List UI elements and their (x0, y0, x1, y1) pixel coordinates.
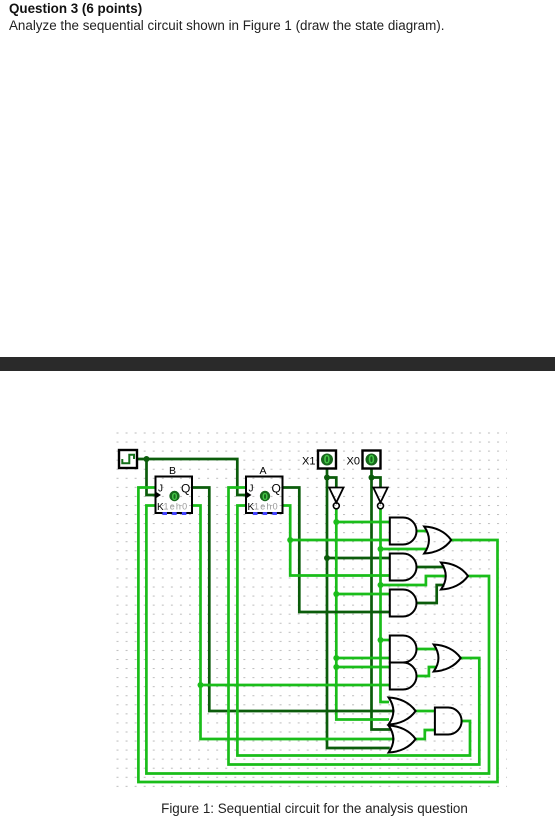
svg-text:J: J (249, 484, 254, 495)
wire AND2 out to OR2 (417, 566, 445, 569)
wire AND1 out to OR1 (417, 530, 428, 533)
svg-text:Q: Q (272, 482, 281, 496)
wire X1 to inverter (327, 478, 336, 489)
svg-text:1eh0: 1eh0 (254, 502, 279, 512)
junction X1 inverter tap (324, 475, 330, 481)
wire OR2 out feedback to B.K (146, 506, 489, 774)
flip-flop A (246, 465, 283, 515)
and-gate G6 (390, 636, 417, 663)
wire AND3 out to OR2 jog (417, 585, 445, 603)
svg-text:X0: X0 (347, 456, 360, 468)
wire X1 vertical (327, 469, 390, 749)
wire X0 vertical (372, 469, 392, 730)
heading: Question 3 (9, 1, 142, 16)
wire B.Q to OR4 (192, 488, 395, 712)
junction NOT-X1 AND5 tap (333, 664, 339, 670)
wire B.Qbar to AND5 (201, 684, 390, 687)
junction NOT-X0 AND4 tap (378, 637, 384, 643)
wire clock branch to B (147, 459, 156, 495)
and-gate G5 (390, 590, 417, 617)
wire NOT-X0 to OR1 (381, 548, 428, 551)
junction NOT-X0 OR2 tap (378, 582, 384, 588)
junction NOT-X1 AND4 tap (333, 655, 339, 661)
wire A.Q to AND3 (283, 488, 390, 613)
and-gate G11 (435, 708, 462, 735)
inverter U1 (NOT X1) (329, 488, 343, 503)
input pin X0 (363, 451, 381, 469)
or-gate G10 (3-input) (389, 726, 416, 753)
or-gate G2 (424, 527, 451, 554)
wire NOT-X0 to OR2 jog (381, 576, 447, 585)
junction NOT-X1 AND3 tap (333, 591, 339, 597)
svg-text:0: 0 (262, 491, 268, 503)
wire AND5 out to OR3 jog (417, 667, 437, 676)
inverter U2 (NOT X0) (373, 488, 387, 503)
and-gate G1 (390, 518, 417, 545)
junction clock (144, 456, 150, 462)
wire OR1 out feedback to B.J (138, 488, 497, 783)
wire NOT-X1 to AND5 (336, 666, 390, 669)
wire NOT-X1 vertical (336, 509, 389, 720)
svg-text:Q: Q (181, 482, 190, 496)
junction NOT-X1 AND1 tap (333, 519, 339, 525)
prompt text (9, 18, 444, 33)
wire A.Qbar to AND1 (290, 539, 390, 542)
svg-text:1eh0: 1eh0 (164, 502, 189, 512)
wire NOT-X1 to AND4 (336, 657, 390, 660)
wire X0 to inverter (372, 478, 381, 489)
wire AND6 out feedback to A.K (237, 506, 470, 756)
wire clock net (137, 459, 246, 495)
junction X1 AND2 tap (324, 555, 330, 561)
or-gate G8 (434, 645, 461, 672)
junction B.Qbar AND5 tap (198, 682, 204, 688)
junction A.Qbar AND1 tap (287, 537, 293, 543)
or-gate G9 (3-input) (389, 698, 416, 725)
wire X1 to AND2 (327, 557, 390, 560)
svg-text:J: J (158, 484, 163, 495)
and-gate G7 (390, 663, 417, 690)
wire NOT-X0 to AND4 (381, 639, 390, 642)
svg-text:B: B (169, 465, 176, 477)
dark separator bar (0, 357, 555, 372)
clock source CLK (119, 450, 137, 468)
junction X0 inverter tap (369, 475, 375, 481)
figure caption (0, 801, 555, 816)
junction NOT-X0 OR1 tap (378, 546, 384, 552)
svg-text:A: A (259, 465, 266, 477)
wire OR5 out to AND6 jog (416, 730, 435, 739)
wire NOT-X0 vertical (381, 509, 390, 702)
wire NOT-X1 to AND1 (336, 521, 390, 524)
grid dots (114, 430, 507, 788)
or-gate G4 (3-input) (441, 563, 468, 590)
svg-text:X1: X1 (302, 456, 315, 468)
wire AND4 out to OR3 (417, 648, 437, 651)
svg-text:0: 0 (324, 455, 330, 467)
flip-flop B (156, 465, 193, 515)
svg-text:0: 0 (368, 455, 374, 467)
wire OR4 out to AND6 (416, 710, 435, 713)
wire NOT-X1 to AND3 (336, 593, 390, 596)
wire B.Qbar vertical (192, 506, 395, 740)
input pin X1 (318, 451, 336, 469)
wire A.Qbar vertical (283, 506, 390, 576)
wire OR3 out feedback to A.J (229, 488, 480, 765)
and-gate G3 (390, 554, 417, 581)
svg-text:0: 0 (172, 491, 178, 503)
